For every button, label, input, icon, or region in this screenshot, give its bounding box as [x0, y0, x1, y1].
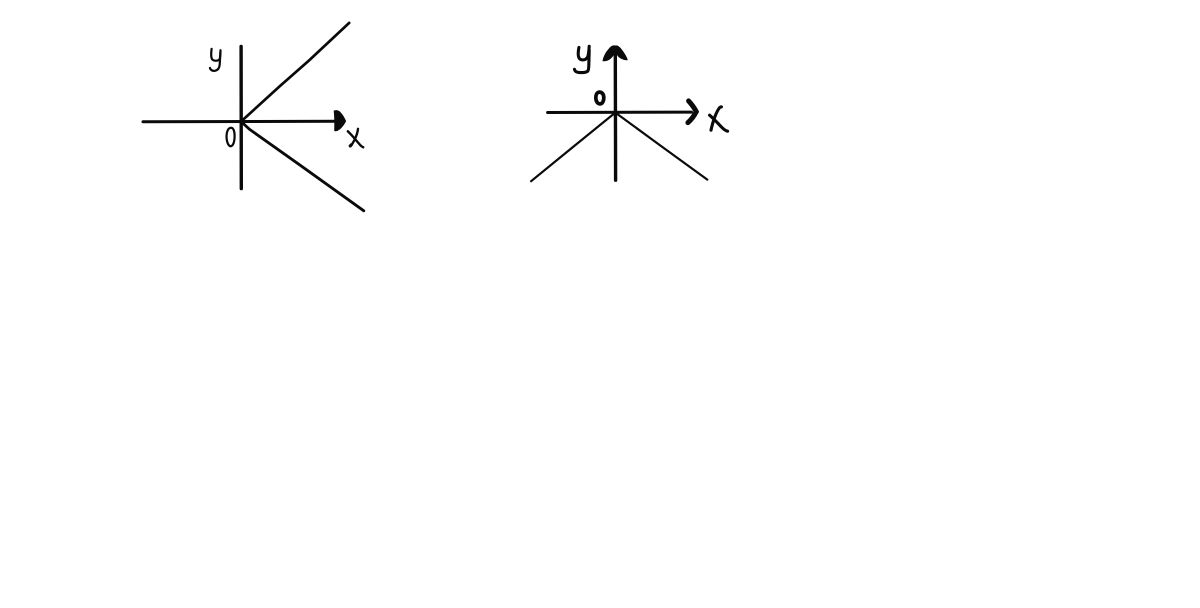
line y=-x branch (left figure, down-right diagonal)	[241, 122, 364, 211]
left figure: coordinate system 1	[143, 23, 364, 211]
y-axis (right figure)	[614, 54, 618, 180]
label x (right figure)	[710, 115, 728, 131]
y-axis arrowhead (right figure)	[603, 46, 627, 61]
label 0 (right figure)	[596, 92, 604, 104]
x-axis arrowhead chevron (right figure)	[688, 101, 696, 123]
label x (left figure)	[348, 131, 363, 147]
label y (left figure)	[211, 49, 220, 61]
x-axis arrowhead (left figure)	[334, 111, 345, 131]
label y (right figure)	[578, 46, 589, 60]
label 0 (left figure)	[227, 128, 235, 146]
down-left diagonal (right figure)	[531, 113, 615, 182]
y-axis (left figure)	[239, 46, 243, 188]
right figure: coordinate system 2	[531, 46, 728, 181]
down-right diagonal (right figure)	[615, 113, 707, 180]
x-axis (right figure)	[548, 111, 692, 114]
x-axis (left figure)	[143, 120, 338, 123]
line y=x branch (left figure, up-right diagonal)	[241, 23, 349, 122]
